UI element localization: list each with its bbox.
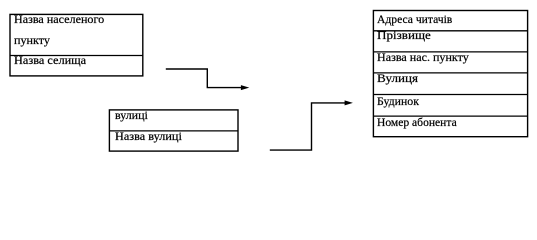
table box B3 row divider 1 bbox=[373, 30, 527, 32]
B1 cell text line 2: пункту bbox=[14, 34, 50, 47]
arrow A2 elbow wire from B2 toward B3 bbox=[270, 103, 346, 150]
B2 row 2 text: Назва вулиці bbox=[115, 130, 182, 143]
B3 row 2 text: Прізвище bbox=[377, 29, 431, 42]
table box B3 (адреса читачів) outline bbox=[373, 11, 527, 137]
table box B1 row divider bbox=[10, 55, 143, 57]
B3 row 4 text: Вулиця bbox=[377, 72, 418, 85]
table box B2 (вулиці) outline bbox=[109, 110, 238, 151]
B1 cell text: Назва населеного bbox=[14, 13, 104, 26]
B3 row 5 text: Будинок bbox=[377, 95, 419, 108]
table box B3 row divider 3 bbox=[373, 72, 527, 74]
arrow A1 elbow wire from B1 toward B2 bbox=[166, 69, 243, 88]
table box B3 row divider 4 bbox=[373, 94, 527, 96]
B3 row 6 text: Номер абонента bbox=[377, 116, 457, 129]
diagram lines layer bbox=[0, 0, 537, 163]
B3 row 1 text: Адреса читачів bbox=[377, 13, 452, 26]
table box B3 row divider 5 bbox=[373, 115, 527, 117]
table box B2 row divider bbox=[109, 130, 238, 132]
B3 row 3 text: Назва нас. пункту bbox=[377, 51, 469, 64]
B1 row 2 text: Назва селища bbox=[14, 54, 86, 67]
B2 row 1 text: вулиці bbox=[115, 109, 148, 122]
arrow A1 head bbox=[241, 85, 249, 90]
table box B3 row divider 2 bbox=[373, 51, 527, 53]
table box B1 (населений пункт) outline bbox=[10, 14, 143, 76]
arrow A2 head bbox=[345, 100, 353, 105]
